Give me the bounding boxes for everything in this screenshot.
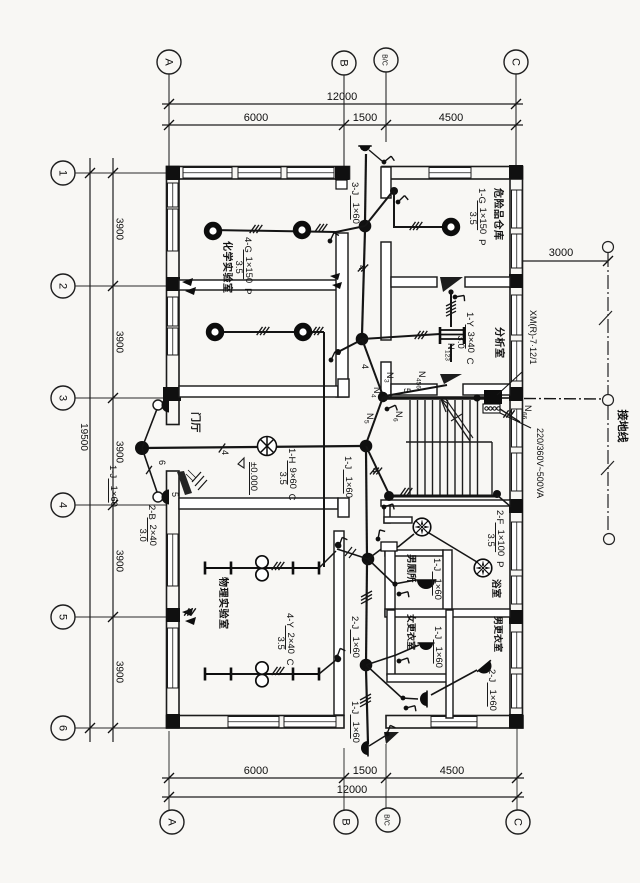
conductor slashes: [400, 488, 413, 496]
junction N4 node: [360, 440, 373, 453]
washroom vestibule wall h: [384, 517, 412, 523]
svg-text:4: 4: [57, 502, 69, 508]
svg-text:3000: 3000: [549, 247, 573, 259]
window left 5: [168, 534, 179, 586]
grid line A: [168, 74, 170, 166]
wire br stub: [497, 495, 511, 507]
svg-text:1500: 1500: [353, 112, 377, 124]
switch corridor grid2 b: [332, 282, 342, 289]
wire XM leader: [497, 372, 522, 395]
wire fan feed a: [368, 547, 398, 559]
svg-text:1×60: 1×60: [350, 203, 361, 224]
dim line 3000 right: [517, 260, 608, 262]
window left 6: [168, 628, 179, 688]
wire analysis drop lower: [450, 344, 452, 362]
svg-text:2-J: 2-J: [486, 669, 497, 682]
wall lamp men changing lamp: [477, 660, 496, 677]
stair right edge: [491, 442, 493, 496]
ground well circle top: [603, 242, 614, 253]
svg-text:P: P: [476, 239, 487, 245]
wire analysis switch drop: [450, 293, 452, 327]
svg-text:1×60: 1×60: [432, 579, 443, 600]
svg-text:6: 6: [392, 418, 399, 422]
svg-text:P: P: [494, 561, 505, 567]
junction dot physics row2 switch: [335, 656, 341, 662]
switch: [397, 587, 412, 601]
wire lab2 switch branch: [338, 338, 365, 352]
extension B/C bottom: [385, 744, 387, 808]
women-changing south wall: [387, 674, 448, 682]
switch grid2 b: [185, 287, 196, 295]
stair tread 7: [454, 400, 456, 495]
svg-text:危险品仓库: 危险品仓库: [492, 188, 505, 241]
svg-text:6000: 6000: [244, 765, 268, 777]
window right 4: [512, 341, 523, 381]
switch: [327, 232, 341, 243]
svg-text:6000: 6000: [244, 112, 268, 124]
wire corridor riser 3: [366, 563, 367, 665]
column C4: [509, 499, 523, 513]
conductor slashes: [360, 694, 371, 707]
svg-text:XM(R)-7·12/1: XM(R)-7·12/1: [528, 310, 538, 365]
svg-text:B: B: [340, 818, 352, 825]
conductor slashes: [311, 327, 324, 335]
entrance lamp bottom half-disc: [162, 490, 169, 505]
dim line 6000/1500/4500 bottom: [162, 777, 524, 779]
column A2: [166, 277, 180, 291]
column C5: [509, 610, 523, 624]
svg-text:220/360V~500VA: 220/360V~500VA: [535, 428, 545, 498]
junction dot analysis door: [448, 289, 453, 294]
svg-text:1-J: 1-J: [107, 465, 118, 478]
ground well circle bottom: [604, 534, 615, 545]
svg-text:1×60: 1×60: [487, 690, 498, 711]
window top 2: [238, 168, 281, 179]
svg-text:4: 4: [360, 364, 370, 369]
switch: [333, 647, 347, 659]
switch: [397, 654, 411, 667]
wire danger lamp feed: [394, 191, 443, 227]
wire riser top: [365, 154, 366, 222]
axis circle A top: [157, 50, 181, 74]
axis circle B top: [332, 51, 356, 75]
wire riser mid: [362, 230, 365, 335]
danger-room south wall a: [391, 277, 437, 287]
door leaf hatch slashes: [192, 472, 207, 490]
axis circle B/C bottom: [376, 808, 400, 832]
door leaf bottom exit: [384, 732, 399, 744]
svg-text:女更衣室: 女更衣室: [406, 614, 417, 650]
conductor slashes: [146, 466, 152, 474]
conductor slashes: [272, 562, 285, 570]
conductor slashes: [257, 327, 270, 335]
svg-text:5: 5: [57, 614, 69, 620]
corridor west wall upper: [336, 233, 348, 397]
switch: [382, 155, 395, 166]
panel terminal 1: [485, 407, 488, 410]
wall lamp top entrance: [358, 146, 371, 151]
conductor slashes: [358, 265, 368, 272]
column B1: [335, 166, 349, 180]
switch: [385, 402, 399, 415]
toilet west wall: [385, 550, 395, 616]
conductor slashes: [446, 301, 456, 316]
stair arrowhead: [441, 399, 447, 412]
svg-text:4: 4: [370, 468, 380, 473]
window bottom 1: [228, 717, 279, 728]
svg-text:N: N: [372, 387, 382, 394]
stair direction line 2: [445, 398, 473, 438]
window right 5: [512, 409, 523, 447]
stair tread 9: [469, 400, 471, 495]
exhaust fan bath fan 2: [474, 559, 492, 577]
switch grid2 a: [182, 278, 193, 286]
window right 10: [512, 674, 523, 708]
entrance lamp top circle: [153, 400, 163, 410]
grid line row: [75, 504, 166, 506]
stair direction line: [441, 399, 470, 441]
grid line B/C: [385, 72, 387, 142]
svg-text:2-F: 2-F: [494, 510, 505, 524]
wire hall run: [142, 446, 360, 448]
svg-text:1×60: 1×60: [350, 722, 361, 743]
dim line 12000 top: [162, 103, 523, 105]
conductor slashes: [315, 224, 328, 232]
svg-text:3: 3: [57, 395, 69, 401]
axis circle B/C top: [374, 48, 398, 72]
wire door down lamp: [142, 448, 157, 492]
svg-text:2-J: 2-J: [349, 616, 360, 629]
wire corridor riser 2: [366, 450, 367, 559]
wire stair diag: [366, 446, 389, 494]
svg-text:男厕所: 男厕所: [405, 554, 417, 583]
bottom wall right: [386, 716, 523, 729]
junction N1: [359, 220, 372, 233]
svg-text:3.5: 3.5: [233, 261, 244, 274]
axis circle C bottom: [506, 810, 530, 834]
axis circle 1 left: [51, 161, 75, 185]
switch grid5 b: [185, 617, 196, 625]
stair tread 6: [447, 400, 449, 495]
window top 3: [287, 168, 334, 179]
conductor slashes: [184, 608, 196, 615]
window left 1: [168, 183, 179, 207]
BC wall low: [381, 362, 391, 397]
wire men lamp link: [431, 670, 477, 695]
door leaf danger room: [440, 277, 463, 292]
svg-text:1×60: 1×60: [350, 637, 361, 658]
grid line row: [75, 172, 166, 174]
lamp chem lab2 b: [297, 326, 310, 339]
wire fan link: [429, 533, 477, 562]
stair tread 5: [439, 400, 441, 495]
wire to stair node: [362, 339, 383, 396]
svg-text:接地线: 接地线: [616, 410, 630, 443]
column C3: [509, 387, 523, 401]
wall lamp passage lamp: [420, 691, 427, 708]
conductor slashes: [503, 410, 514, 417]
svg-text:123: 123: [444, 350, 451, 361]
svg-text:C: C: [286, 494, 297, 501]
conductor slashes: [415, 331, 428, 339]
wire analysis door to node: [385, 385, 447, 396]
junction dot lab2 switch: [335, 349, 341, 355]
junction dot passage bend: [401, 696, 406, 701]
window right 7: [512, 522, 523, 570]
junction panel tap: [473, 394, 480, 401]
switch lab2: [328, 351, 342, 362]
axis circle 5 left: [51, 605, 75, 629]
window right 8: [512, 576, 523, 604]
switch corridor grid2 a: [330, 273, 340, 280]
wire chem lab2 run: [215, 331, 324, 333]
wire phys row1: [231, 567, 293, 569]
svg-text:1-J: 1-J: [432, 626, 443, 639]
fluorescent analysis room: [440, 327, 464, 344]
hall north wall: [179, 386, 338, 397]
svg-text:1500: 1500: [353, 765, 377, 777]
lamp danger room: [445, 221, 458, 234]
switch: [453, 291, 468, 305]
wire to danger switch: [365, 191, 393, 226]
svg-text:3.5: 3.5: [485, 534, 496, 547]
svg-text:1-J: 1-J: [342, 456, 353, 469]
fluorescent physics a1: [205, 562, 231, 575]
stair tread 8: [462, 400, 464, 495]
svg-text:3.5: 3.5: [277, 472, 288, 485]
wire corridor riser 4: [366, 669, 368, 744]
svg-text:3.5: 3.5: [275, 637, 286, 650]
junction stair br: [493, 490, 501, 498]
axis circle 4 left: [51, 493, 75, 517]
panel terminal 4: [497, 407, 500, 410]
ground slash 1: [599, 311, 612, 325]
dim line 3900s left: [112, 158, 114, 742]
grid line C: [515, 74, 517, 165]
grounding line: [599, 242, 615, 545]
svg-text:5: 5: [402, 388, 412, 393]
stair diagonal tick: [451, 414, 462, 421]
extension A bottom: [168, 731, 170, 810]
svg-text:1: 1: [57, 170, 69, 176]
grid2 wall left: [179, 280, 337, 290]
wire phys row2 switch: [319, 660, 336, 674]
door leaf analysis room: [440, 374, 462, 384]
svg-text:C: C: [464, 358, 475, 365]
svg-text:1×60: 1×60: [433, 647, 444, 668]
fluorescent physics a2: [293, 562, 319, 575]
wall lamp toilet lamp: [416, 580, 437, 589]
top wall A-B: [167, 167, 350, 180]
svg-text:4500: 4500: [440, 765, 464, 777]
wire lab2 drop: [323, 332, 325, 567]
column A3-big: [163, 387, 181, 401]
axis circle A bottom: [160, 810, 184, 834]
wire passage lamp feed: [366, 665, 418, 699]
window bottom 3: [431, 717, 477, 728]
junction N6 node: [362, 553, 375, 566]
BC wall top: [381, 167, 391, 198]
svg-text:N: N: [523, 405, 533, 412]
svg-text:物理实验室: 物理实验室: [217, 577, 230, 630]
stair tread 1: [409, 400, 411, 495]
svg-text:5: 5: [363, 420, 370, 424]
axis circle B bottom: [334, 810, 358, 834]
junction N3 node: [378, 392, 388, 402]
axis circle 3 left: [51, 386, 75, 410]
window left 2: [168, 209, 179, 251]
lamp chem lab2 a: [209, 326, 222, 339]
svg-text:3.0: 3.0: [137, 529, 148, 542]
entrance door leaf hatched: [177, 471, 192, 495]
window right 6: [512, 453, 523, 491]
ground well circle mid: [603, 395, 614, 406]
PE conductor to earth: [502, 397, 509, 399]
slashes corridor-toilet wire: [345, 547, 356, 558]
danger-room south wall b: [465, 277, 510, 287]
switch: [335, 536, 349, 548]
junction danger switch dot: [390, 187, 398, 195]
wire fan feed b: [398, 534, 414, 547]
wall lamp bottom exit lamp: [361, 740, 368, 757]
svg-text:6: 6: [57, 725, 69, 731]
grid4 wall: [179, 498, 338, 509]
svg-text:3900: 3900: [114, 218, 125, 241]
wire lab1 feed: [212, 226, 365, 232]
column A5: [166, 608, 180, 622]
window bottom 2: [284, 717, 336, 728]
wire stair bottom bundle: [389, 495, 497, 498]
junction dot toilet bend: [392, 581, 397, 586]
svg-text:B/C: B/C: [381, 54, 388, 66]
svg-text:P: P: [242, 288, 253, 294]
svg-text:12000: 12000: [327, 91, 358, 103]
exhaust fan bath fan 1: [413, 518, 431, 536]
lamp circle pair: [256, 556, 268, 568]
wire door up lamp: [142, 409, 157, 448]
window top 4: [429, 168, 471, 179]
switch: [373, 528, 387, 541]
svg-text:C: C: [284, 659, 295, 666]
svg-text:N: N: [385, 372, 395, 379]
svg-text:2: 2: [57, 283, 69, 289]
column C6: [509, 714, 523, 728]
grid line row: [75, 397, 166, 399]
conductor slashes: [410, 222, 423, 230]
wire source leader: [500, 413, 531, 428]
svg-text:3900: 3900: [114, 550, 125, 573]
level mark triangle: [238, 458, 244, 468]
3-J distribution box: [336, 180, 347, 189]
wire stair top bundle: [383, 396, 484, 400]
stair tread 10: [477, 400, 479, 495]
window right 3: [512, 295, 523, 335]
panel terminal 2: [489, 407, 492, 410]
svg-text:3900: 3900: [114, 661, 125, 684]
column C2: [509, 274, 523, 288]
svg-text:3.5: 3.5: [467, 212, 478, 225]
grid line row: [75, 285, 166, 287]
entrance lamp top half-disc: [162, 398, 169, 413]
axis circle 6 left: [51, 716, 75, 740]
lamp chem lab1 a: [207, 225, 220, 238]
svg-text:男更衣室: 男更衣室: [493, 616, 504, 652]
women-changing west wall: [387, 610, 395, 675]
hall ceiling lamp 1-H: [258, 437, 277, 456]
column A6: [166, 714, 180, 728]
svg-text:C: C: [512, 818, 524, 826]
junction N2: [356, 333, 369, 346]
svg-text:4: 4: [220, 450, 230, 455]
toilet-bath wall: [443, 550, 452, 616]
junction dot physics row1 switch: [335, 542, 341, 548]
wire N5 branch: [366, 397, 383, 444]
stair landing line: [406, 441, 492, 443]
window right 1: [512, 190, 523, 228]
column C1: [509, 165, 523, 179]
junction stair bl: [384, 491, 394, 501]
svg-text:6: 6: [157, 460, 167, 465]
junction door node: [135, 441, 149, 455]
svg-text:B/C: B/C: [383, 814, 390, 826]
stair tread 2: [417, 400, 419, 495]
svg-text:1-J: 1-J: [431, 558, 442, 571]
svg-text:门厅: 门厅: [189, 412, 202, 433]
wall lamp women changing lamp: [418, 643, 435, 650]
conductor slashes: [272, 667, 285, 675]
conductor slashes: [370, 468, 382, 475]
fluorescent physics b2: [293, 668, 319, 681]
svg-text:化学实验室: 化学实验室: [221, 241, 234, 294]
lamp chem lab1 b: [296, 224, 309, 237]
wire analysis feed: [362, 334, 440, 339]
left wall lower: [167, 471, 180, 728]
extension B bottom: [343, 748, 345, 810]
grid line row: [75, 727, 166, 729]
svg-text:N: N: [365, 413, 375, 420]
wire women lamp feed: [366, 645, 419, 665]
dim line 19500 left: [89, 158, 91, 742]
svg-text:3900: 3900: [114, 441, 125, 464]
window top 1: [183, 168, 232, 179]
junction N7 node: [360, 659, 373, 672]
switch: [396, 195, 408, 205]
svg-text:A: A: [163, 58, 175, 66]
switch: [404, 701, 419, 715]
svg-text:1×60: 1×60: [343, 477, 354, 498]
grid4 wall jog: [338, 498, 349, 517]
conductor slashes: [361, 591, 372, 604]
svg-text:B: B: [338, 59, 350, 66]
window right 9: [512, 632, 523, 668]
stair tread 3: [424, 400, 426, 495]
bottom wall left: [167, 716, 345, 729]
conductor slashes: [219, 444, 225, 453]
svg-text:4: 4: [357, 265, 367, 270]
axis circle C top: [504, 50, 528, 74]
svg-text:N: N: [394, 411, 404, 418]
axis circle 2 left: [51, 274, 75, 298]
svg-text:5: 5: [170, 492, 180, 497]
changing rooms north wall: [385, 609, 510, 617]
changing rooms divider wall: [446, 610, 453, 718]
left wall upper: [167, 167, 180, 425]
wire phys row1 switch: [319, 551, 336, 568]
right wall: [510, 167, 523, 729]
corridor west wall lower: [334, 531, 344, 715]
svg-text:456: 456: [415, 378, 422, 389]
svg-text:19500: 19500: [78, 423, 89, 451]
